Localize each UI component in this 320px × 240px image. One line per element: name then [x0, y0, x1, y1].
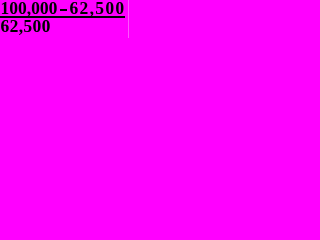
numerator 62,500 [70, 0, 126, 18]
right edge light column [128, 0, 129, 38]
denominator 62,500 [1, 18, 51, 36]
fraction bar [0, 16, 125, 18]
minus sign [60, 9, 67, 11]
numerator 100,000 [1, 0, 58, 18]
